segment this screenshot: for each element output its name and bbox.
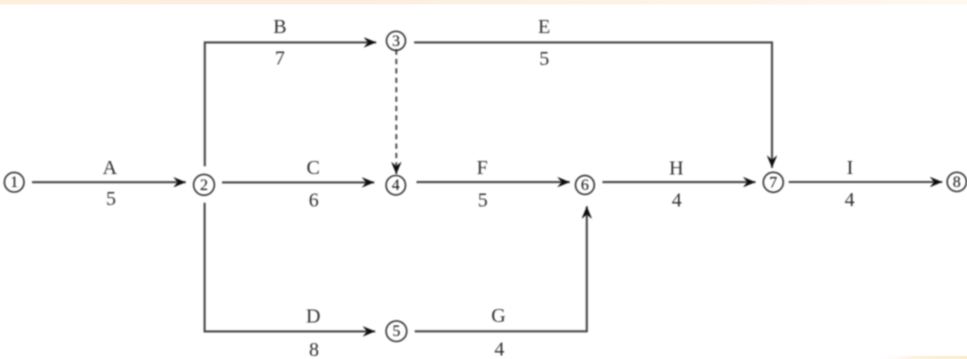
node 3	[387, 31, 406, 50]
wire E: node3 right then down to node7	[414, 42, 772, 167]
svg-text:5: 5	[478, 190, 488, 212]
dashed wire: node3 down to node4	[395, 50, 397, 175]
decorative bottom-right band	[872, 356, 967, 359]
wire I: node7 to node8	[789, 181, 943, 183]
wire H: node6 to node7	[602, 181, 755, 183]
svg-text:B: B	[273, 16, 286, 38]
svg-text:8: 8	[309, 339, 319, 359]
node 6	[576, 176, 595, 195]
node 7	[763, 172, 783, 192]
svg-text:6: 6	[581, 177, 589, 194]
svg-text:4: 4	[845, 189, 855, 211]
svg-text:I: I	[847, 157, 854, 179]
node 5	[386, 321, 407, 342]
svg-text:1: 1	[10, 174, 18, 191]
svg-text:G: G	[491, 305, 505, 327]
svg-text:2: 2	[200, 177, 208, 194]
node 4	[386, 176, 405, 195]
svg-text:5: 5	[106, 188, 116, 210]
svg-text:D: D	[306, 306, 320, 328]
node 1	[4, 172, 24, 192]
node 8	[947, 172, 966, 191]
svg-text:4: 4	[672, 190, 682, 212]
svg-text:E: E	[538, 16, 550, 38]
svg-text:4: 4	[392, 177, 400, 194]
svg-text:A: A	[103, 157, 118, 179]
svg-text:7: 7	[769, 174, 777, 191]
wire C: node2 to node4	[222, 181, 374, 183]
svg-text:6: 6	[309, 190, 319, 212]
svg-text:8: 8	[953, 174, 961, 191]
wire B: node2 up then right to node3	[205, 42, 376, 166]
svg-text:F: F	[477, 157, 488, 179]
svg-text:C: C	[307, 157, 320, 179]
svg-text:7: 7	[275, 48, 285, 70]
wire A: node1 to node2	[32, 181, 186, 183]
decorative top band	[0, 0, 967, 4]
svg-text:3: 3	[392, 33, 400, 50]
svg-text:5: 5	[539, 48, 549, 70]
wire G: node5 right then up to node6	[415, 206, 587, 331]
svg-text:4: 4	[494, 339, 504, 359]
wire F: node4 to node6	[417, 181, 570, 183]
svg-text:H: H	[669, 158, 683, 180]
svg-text:5: 5	[392, 323, 400, 340]
wire D: node2 down then right to node5	[205, 203, 376, 332]
node 2	[194, 174, 215, 195]
